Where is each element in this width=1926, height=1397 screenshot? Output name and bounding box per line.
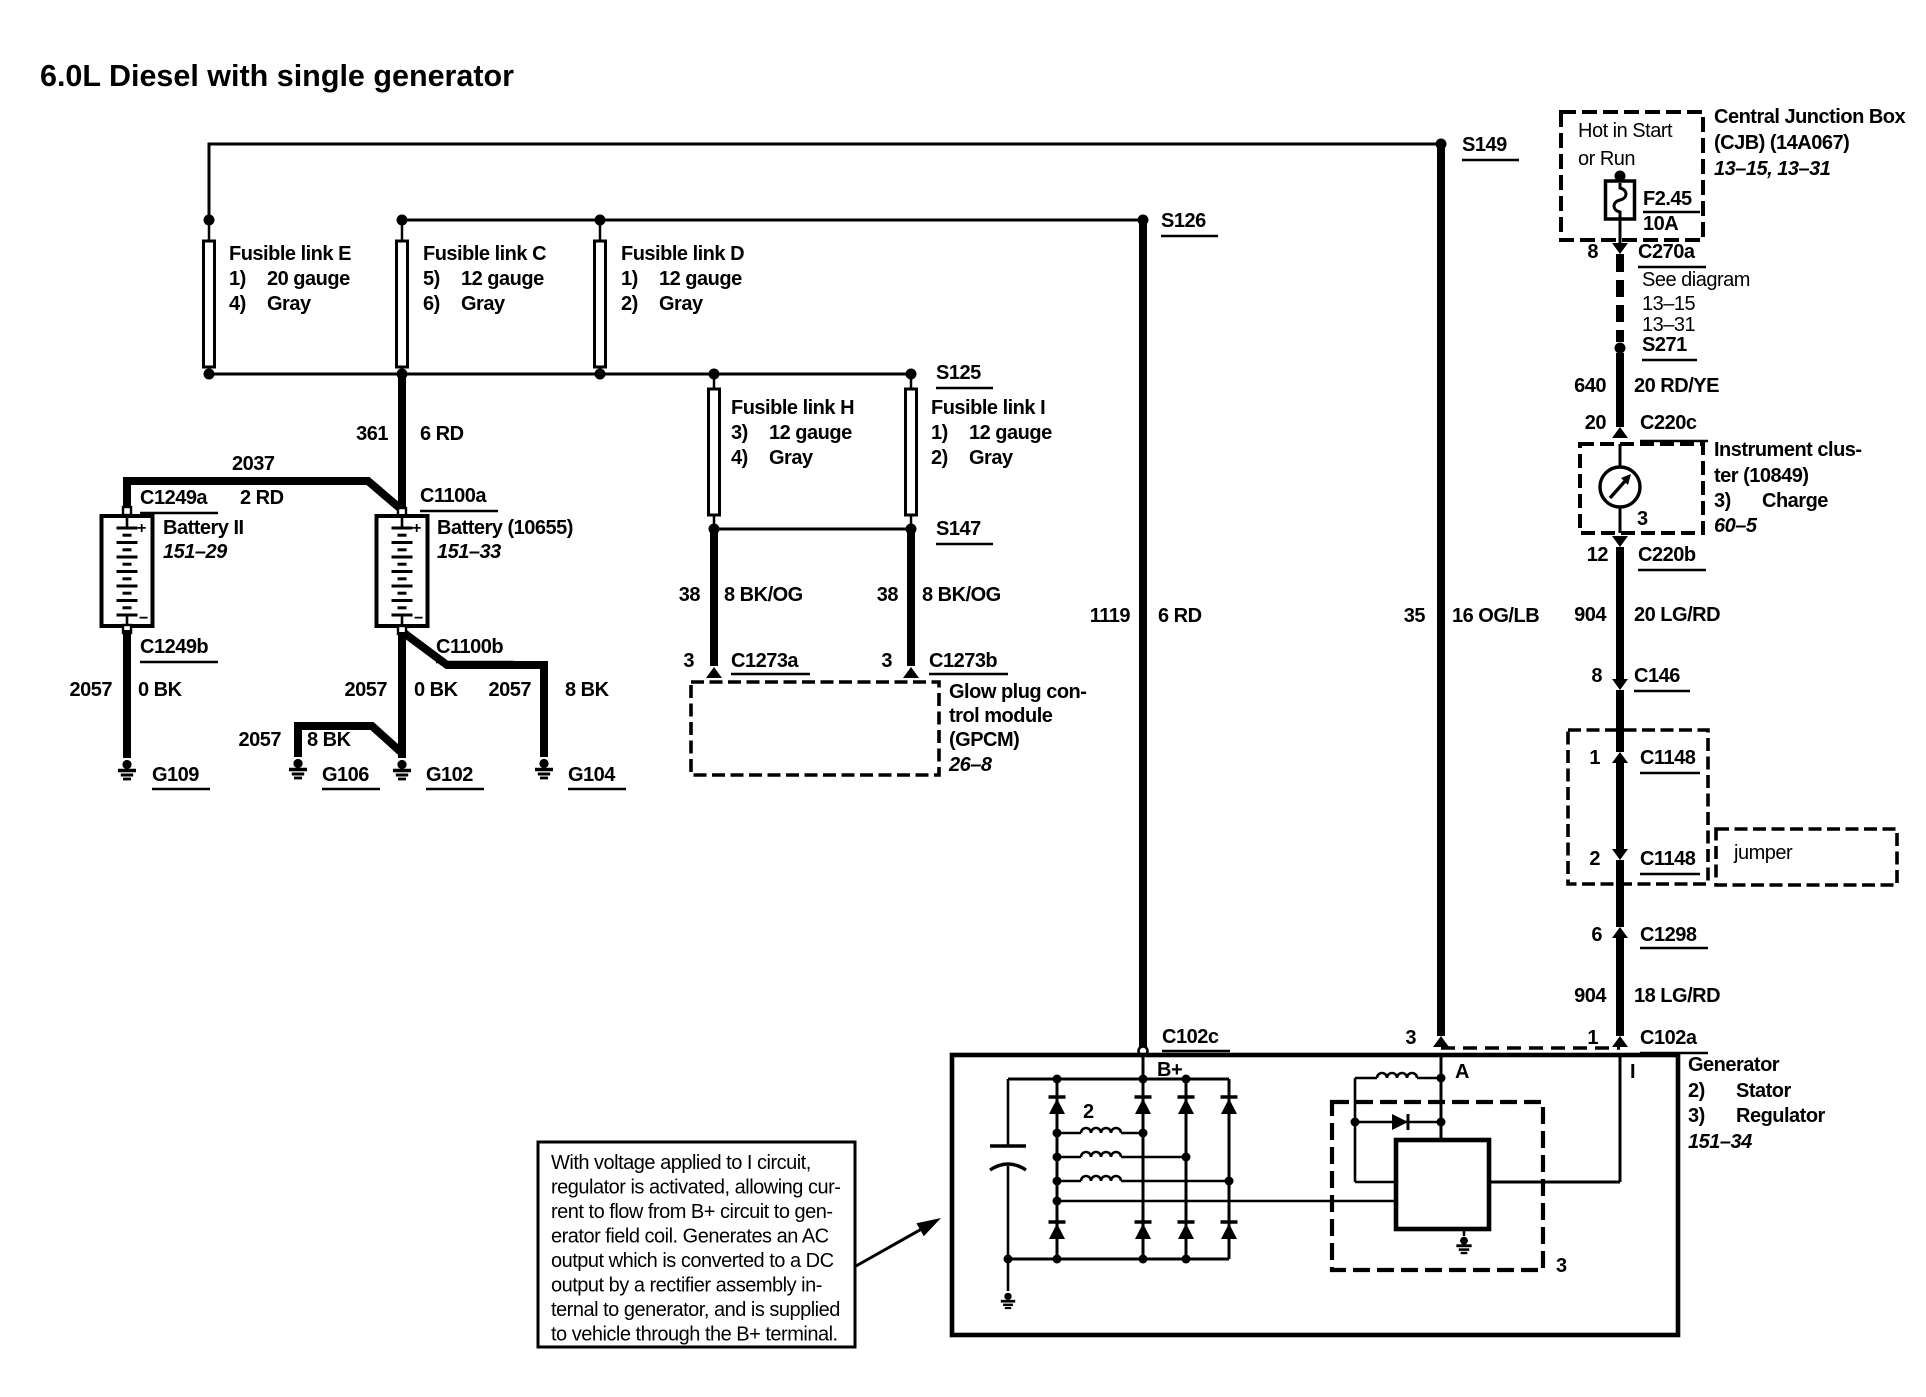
svg-text:C1298: C1298 bbox=[1640, 924, 1697, 946]
svg-text:12 gauge: 12 gauge bbox=[461, 268, 544, 290]
rectifier top rail bbox=[1008, 1078, 1229, 1081]
svg-text:2057: 2057 bbox=[345, 679, 388, 701]
pin 3 connector C1273b bbox=[903, 667, 919, 678]
svg-text:C1100a: C1100a bbox=[420, 485, 487, 507]
rectifier columns bbox=[1056, 1079, 1059, 1259]
pin 1 connector C102a bbox=[1612, 1036, 1628, 1047]
node I wire bbox=[1489, 1055, 1620, 1182]
note arrow bbox=[856, 1224, 931, 1266]
svg-text:2): 2) bbox=[621, 293, 638, 315]
wire C146 to C1148 bbox=[1616, 690, 1624, 752]
svg-text:18 LG/RD: 18 LG/RD bbox=[1634, 985, 1720, 1007]
svg-text:1): 1) bbox=[229, 268, 246, 290]
wire 1119 6 RD (S126 to generator B+) bbox=[1139, 220, 1147, 1048]
svg-text:F2.45: F2.45 bbox=[1643, 188, 1692, 210]
svg-text:C102c: C102c bbox=[1162, 1026, 1219, 1048]
splice S271 bbox=[1615, 343, 1626, 354]
svg-text:S125: S125 bbox=[936, 362, 981, 384]
ground G106 bbox=[289, 759, 307, 778]
svg-text:Regulator: Regulator bbox=[1736, 1105, 1826, 1127]
wire capacitor to ground bbox=[1007, 1259, 1010, 1291]
svg-text:C1273b: C1273b bbox=[929, 650, 997, 672]
wire dashed to S271 bbox=[1616, 254, 1624, 342]
connector C1249b bbox=[123, 625, 131, 633]
field coil L1 bbox=[1355, 1073, 1446, 1083]
svg-text:3): 3) bbox=[1714, 490, 1731, 512]
splice S149 bbox=[1436, 139, 1447, 150]
svg-text:8 BK/OG: 8 BK/OG bbox=[922, 584, 1001, 606]
svg-text:20 RD/YE: 20 RD/YE bbox=[1634, 375, 1719, 397]
rectifier diodes lower bbox=[1049, 1220, 1066, 1224]
svg-text:2057: 2057 bbox=[489, 679, 532, 701]
fusible link E bbox=[204, 215, 215, 380]
splice S126 bbox=[1138, 215, 1149, 226]
rectifier diodes upper bbox=[1049, 1095, 1066, 1099]
svg-text:ternal to generator, and is su: ternal to generator, and is supplied bbox=[551, 1299, 840, 1321]
svg-text:C1100b: C1100b bbox=[436, 636, 503, 658]
regulator dashed box 3 bbox=[1332, 1102, 1543, 1270]
wire C1148 to C1298 bbox=[1616, 860, 1624, 927]
rectifier bottom rail bbox=[1008, 1258, 1229, 1261]
C1148 connector box bbox=[1568, 730, 1708, 884]
note text box bbox=[538, 1142, 855, 1347]
stator winding phase 2 bbox=[1053, 1152, 1191, 1162]
svg-text:5): 5) bbox=[423, 268, 440, 290]
label See diagram bbox=[1642, 269, 1750, 336]
node A wire bbox=[1440, 1055, 1443, 1140]
svg-text:35: 35 bbox=[1404, 605, 1426, 627]
diode D1 (regulator) bbox=[1351, 1114, 1446, 1130]
svg-text:12 gauge: 12 gauge bbox=[769, 422, 852, 444]
svg-text:Battery (10655): Battery (10655) bbox=[437, 517, 573, 539]
svg-text:2): 2) bbox=[931, 447, 948, 469]
wire inside C1148 bbox=[1616, 763, 1624, 849]
svg-text:S149: S149 bbox=[1462, 134, 1507, 156]
svg-text:Hot in Start: Hot in Start bbox=[1578, 120, 1673, 142]
svg-text:2057: 2057 bbox=[239, 729, 282, 751]
svg-text:2: 2 bbox=[1083, 1101, 1094, 1123]
note paragraph bbox=[551, 1152, 840, 1346]
svg-text:Gray: Gray bbox=[659, 293, 704, 315]
wire 2057 8 BK from G106 bbox=[298, 726, 402, 757]
svg-text:151–29: 151–29 bbox=[163, 541, 228, 563]
svg-text:Gray: Gray bbox=[461, 293, 506, 315]
svg-text:Generator: Generator bbox=[1688, 1054, 1780, 1076]
svg-text:Fusible link D: Fusible link D bbox=[621, 243, 744, 265]
svg-text:361: 361 bbox=[356, 423, 388, 445]
wire 2057 0 BK to G102 bbox=[398, 632, 406, 758]
ground G104 bbox=[535, 759, 553, 778]
svg-text:1: 1 bbox=[1587, 1027, 1598, 1049]
fuse F2.45 10A bbox=[1606, 171, 1635, 220]
svg-text:C220b: C220b bbox=[1638, 544, 1696, 566]
svg-text:4): 4) bbox=[731, 447, 748, 469]
svg-text:8: 8 bbox=[1587, 241, 1598, 263]
svg-text:12 gauge: 12 gauge bbox=[969, 422, 1052, 444]
regulator ground bbox=[1456, 1229, 1471, 1253]
svg-text:3: 3 bbox=[683, 650, 694, 672]
generator box bbox=[952, 1055, 1678, 1335]
svg-text:(GPCM): (GPCM) bbox=[949, 729, 1019, 751]
charge gauge indicator bbox=[1600, 444, 1640, 533]
svg-text:151–34: 151–34 bbox=[1688, 1131, 1752, 1153]
label fusible link H bbox=[731, 397, 854, 469]
svg-text:6.0L Diesel with single genera: 6.0L Diesel with single generator bbox=[40, 59, 514, 93]
svg-text:20 gauge: 20 gauge bbox=[267, 268, 350, 290]
svg-text:4): 4) bbox=[229, 293, 246, 315]
svg-text:Charge: Charge bbox=[1762, 490, 1828, 512]
fusible link H bbox=[709, 369, 720, 535]
svg-text:Stator: Stator bbox=[1736, 1080, 1792, 1102]
wire 2057 0 BK to G109 bbox=[123, 630, 131, 758]
wire fusible-link bottom bus bbox=[209, 373, 911, 376]
wire 38 8 BK/OG right bbox=[907, 529, 915, 666]
wire 640 20 RD/YE bbox=[1616, 353, 1624, 427]
svg-text:3: 3 bbox=[881, 650, 892, 672]
svg-text:20 LG/RD: 20 LG/RD bbox=[1634, 604, 1720, 626]
svg-text:rent to flow from B+ circuit t: rent to flow from B+ circuit to gen- bbox=[551, 1201, 833, 1223]
wire 38 8 BK/OG left bbox=[710, 529, 718, 666]
wire 361 6 RD bbox=[398, 374, 406, 512]
svg-text:16 OG/LB: 16 OG/LB bbox=[1452, 605, 1539, 627]
regulator module box bbox=[1396, 1140, 1489, 1229]
wire 904 18 LG/RD bbox=[1616, 938, 1624, 1036]
svg-text:8 BK/OG: 8 BK/OG bbox=[724, 584, 803, 606]
battery B2 (Battery II) bbox=[102, 516, 153, 627]
svg-text:+: + bbox=[412, 520, 421, 537]
capacitor C1 bbox=[990, 1079, 1026, 1259]
svg-text:See diagram: See diagram bbox=[1642, 269, 1750, 291]
svg-text:6 RD: 6 RD bbox=[1158, 605, 1202, 627]
svg-text:2): 2) bbox=[1688, 1080, 1705, 1102]
svg-text:Instrument clus-: Instrument clus- bbox=[1714, 439, 1862, 461]
svg-text:S147: S147 bbox=[936, 518, 981, 540]
svg-text:C1148: C1148 bbox=[1640, 747, 1696, 769]
svg-text:S271: S271 bbox=[1642, 334, 1687, 356]
wire 2037 2 RD bbox=[127, 481, 402, 513]
svg-text:0 BK: 0 BK bbox=[138, 679, 183, 701]
svg-text:2037: 2037 bbox=[232, 453, 275, 475]
svg-text:ter (10849): ter (10849) bbox=[1714, 465, 1809, 487]
fusible link C bbox=[397, 215, 408, 380]
label Generator bbox=[1688, 1054, 1826, 1153]
ground G102 bbox=[393, 760, 411, 779]
svg-text:13–15, 13–31: 13–15, 13–31 bbox=[1714, 158, 1831, 180]
svg-text:(CJB) (14A067): (CJB) (14A067) bbox=[1714, 132, 1849, 154]
svg-text:3: 3 bbox=[1637, 508, 1648, 530]
jumper box bbox=[1716, 829, 1897, 885]
pin 6 connector C1298 bbox=[1612, 927, 1628, 938]
svg-text:2 RD: 2 RD bbox=[240, 487, 284, 509]
svg-text:151–33: 151–33 bbox=[437, 541, 501, 563]
svg-text:S126: S126 bbox=[1161, 210, 1206, 232]
label fusible link E bbox=[229, 243, 351, 315]
label GPCM bbox=[948, 681, 1086, 776]
svg-text:3): 3) bbox=[731, 422, 748, 444]
svg-text:Gray: Gray bbox=[267, 293, 312, 315]
fusible link I bbox=[906, 369, 917, 535]
wire 35 16 OG/LB (S149 to generator A) bbox=[1437, 144, 1445, 1036]
svg-text:1: 1 bbox=[1589, 747, 1600, 769]
svg-text:1): 1) bbox=[931, 422, 948, 444]
svg-text:0 BK: 0 BK bbox=[414, 679, 459, 701]
label Central Junction Box bbox=[1714, 106, 1906, 180]
wire second bus to S126 bbox=[402, 219, 1143, 222]
svg-text:trol module: trol module bbox=[949, 705, 1053, 727]
wire field coil branch bbox=[1355, 1078, 1396, 1182]
svg-text:38: 38 bbox=[679, 584, 701, 606]
svg-text:C146: C146 bbox=[1634, 665, 1680, 687]
svg-text:erator field coil. Generates a: erator field coil. Generates an AC bbox=[551, 1226, 829, 1248]
pin 8 connector C270a bbox=[1612, 243, 1628, 254]
Central Junction Box CJB bbox=[1561, 112, 1703, 240]
svg-text:C220c: C220c bbox=[1640, 412, 1697, 434]
svg-text:12 gauge: 12 gauge bbox=[659, 268, 742, 290]
svg-text:904: 904 bbox=[1574, 985, 1607, 1007]
svg-text:C270a: C270a bbox=[1638, 241, 1696, 263]
svg-text:C1249b: C1249b bbox=[140, 636, 208, 658]
svg-text:8 BK: 8 BK bbox=[307, 729, 352, 751]
svg-text:3: 3 bbox=[1405, 1027, 1416, 1049]
ground (generator case) bbox=[1001, 1293, 1015, 1308]
svg-text:regulator is activated, allowi: regulator is activated, allowing cur- bbox=[551, 1177, 840, 1199]
svg-text:20: 20 bbox=[1585, 412, 1607, 434]
label instrument cluster bbox=[1714, 439, 1862, 537]
svg-text:6 RD: 6 RD bbox=[420, 423, 464, 445]
pin 12 connector C220b bbox=[1612, 536, 1628, 547]
connector C1100b bbox=[398, 626, 406, 634]
svg-text:1119: 1119 bbox=[1090, 605, 1131, 627]
svg-text:to vehicle through the B+ term: to vehicle through the B+ terminal. bbox=[551, 1324, 838, 1346]
svg-text:−: − bbox=[414, 610, 423, 627]
svg-text:13–31: 13–31 bbox=[1642, 314, 1695, 336]
instrument cluster box bbox=[1580, 444, 1703, 533]
svg-text:640: 640 bbox=[1574, 375, 1606, 397]
svg-text:Fusible link C: Fusible link C bbox=[423, 243, 546, 265]
wire 904 20 LG/RD bbox=[1616, 547, 1624, 679]
svg-text:3: 3 bbox=[1556, 1255, 1567, 1277]
wire S147 bus bbox=[714, 528, 911, 531]
svg-text:60–5: 60–5 bbox=[1714, 515, 1758, 537]
svg-text:2057: 2057 bbox=[70, 679, 113, 701]
svg-text:6): 6) bbox=[423, 293, 440, 315]
svg-text:C1249a: C1249a bbox=[140, 487, 208, 509]
pin 8 connector C146 bbox=[1612, 679, 1628, 690]
pin 3 at C102 (A circuit) bbox=[1433, 1036, 1449, 1047]
stator winding phase 1 bbox=[1053, 1128, 1148, 1138]
svg-text:Fusible link I: Fusible link I bbox=[931, 397, 1045, 419]
label fusible link I bbox=[931, 397, 1052, 469]
pin 2 connector C1148 bbox=[1612, 849, 1628, 860]
svg-text:12: 12 bbox=[1587, 544, 1609, 566]
battery B1 (Battery 10655) bbox=[377, 516, 428, 627]
ground G109 bbox=[118, 760, 136, 779]
svg-text:1): 1) bbox=[621, 268, 638, 290]
svg-text:or Run: or Run bbox=[1578, 148, 1635, 170]
connector C102 dashed link bbox=[1441, 1046, 1620, 1049]
svg-text:38: 38 bbox=[877, 584, 899, 606]
svg-text:A: A bbox=[1455, 1061, 1469, 1083]
connector C1249a bbox=[123, 507, 131, 515]
svg-text:Glow plug con-: Glow plug con- bbox=[949, 681, 1086, 703]
svg-text:Gray: Gray bbox=[769, 447, 814, 469]
svg-text:With voltage applied to I circ: With voltage applied to I circuit, bbox=[551, 1152, 811, 1174]
svg-text:C1273a: C1273a bbox=[731, 650, 799, 672]
svg-text:13–15: 13–15 bbox=[1642, 293, 1695, 315]
svg-text:G104: G104 bbox=[568, 764, 616, 786]
pin 20 connector C220c bbox=[1612, 427, 1628, 438]
svg-text:G106: G106 bbox=[322, 764, 369, 786]
svg-text:10A: 10A bbox=[1643, 213, 1678, 235]
connector C1100a bbox=[398, 508, 406, 516]
pin 1 connector C1148 bbox=[1612, 752, 1628, 763]
svg-text:+: + bbox=[137, 520, 146, 537]
svg-text:Central Junction Box: Central Junction Box bbox=[1714, 106, 1906, 128]
stator winding phase 3 bbox=[1053, 1176, 1234, 1186]
svg-text:Battery II: Battery II bbox=[163, 517, 244, 539]
label fusible link D bbox=[621, 243, 744, 315]
svg-text:output which is converted to a: output which is converted to a DC bbox=[551, 1250, 834, 1272]
svg-text:8: 8 bbox=[1591, 665, 1602, 687]
svg-text:I: I bbox=[1630, 1061, 1635, 1083]
svg-text:6: 6 bbox=[1591, 924, 1602, 946]
glow plug control module GPCM box bbox=[691, 682, 939, 775]
connector C102c bbox=[1139, 1047, 1148, 1056]
svg-text:Gray: Gray bbox=[969, 447, 1014, 469]
svg-text:2: 2 bbox=[1589, 848, 1600, 870]
svg-text:Fusible link E: Fusible link E bbox=[229, 243, 351, 265]
svg-text:C1148: C1148 bbox=[1640, 848, 1696, 870]
svg-text:output by a rectifier assembly: output by a rectifier assembly in- bbox=[551, 1275, 822, 1297]
svg-text:G102: G102 bbox=[426, 764, 473, 786]
node B+ bbox=[1142, 1055, 1145, 1079]
wire stator to regulator bbox=[1053, 1197, 1397, 1206]
wire C1100b 2057 8 BK to G104 bbox=[404, 633, 544, 757]
svg-text:904: 904 bbox=[1574, 604, 1607, 626]
pin 3 connector C1273a bbox=[706, 667, 722, 678]
junction dots rectifier bbox=[1004, 1075, 1191, 1264]
svg-text:8 BK: 8 BK bbox=[565, 679, 610, 701]
svg-text:3): 3) bbox=[1688, 1105, 1705, 1127]
wire top bus to S149 bbox=[209, 144, 1441, 218]
wire fuse to C270a bbox=[1619, 219, 1622, 243]
svg-text:26–8: 26–8 bbox=[948, 754, 993, 776]
svg-text:Fusible link H: Fusible link H bbox=[731, 397, 854, 419]
svg-text:G109: G109 bbox=[152, 764, 199, 786]
svg-text:C102a: C102a bbox=[1640, 1027, 1698, 1049]
svg-text:jumper: jumper bbox=[1733, 842, 1793, 864]
svg-text:−: − bbox=[139, 610, 148, 627]
fusible link D bbox=[595, 215, 606, 380]
label fusible link C bbox=[423, 243, 546, 315]
